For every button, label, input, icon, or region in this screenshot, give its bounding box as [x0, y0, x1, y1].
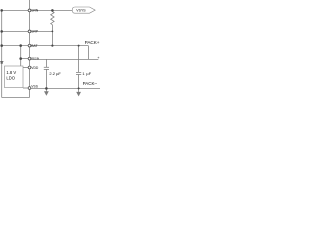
svg-text:LDO: LDO [6, 76, 15, 81]
svg-text:PACK+: PACK+ [85, 40, 100, 45]
svg-text:REGIN: REGIN [31, 57, 39, 60]
svg-text:BAT: BAT [31, 44, 37, 48]
svg-text:VSYS: VSYS [76, 8, 86, 12]
svg-text:SRP: SRP [31, 30, 39, 34]
svg-text:PACK–: PACK– [83, 81, 98, 86]
svg-text:VSS: VSS [31, 85, 38, 89]
svg-text:VDD: VDD [31, 66, 39, 70]
svg-text:1.8 V: 1.8 V [6, 70, 16, 75]
svg-text:2.2 µF: 2.2 µF [49, 71, 61, 76]
svg-text:SRN: SRN [31, 9, 39, 13]
svg-text:1 µF: 1 µF [82, 71, 91, 76]
